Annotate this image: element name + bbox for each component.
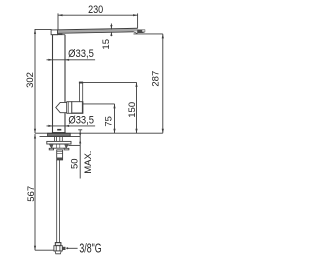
dim diam 33.5 lower line xyxy=(47,125,96,127)
dim diam 33.5 upper line xyxy=(47,59,96,61)
svg-text:Ø33,5: Ø33,5 xyxy=(68,48,94,60)
spout joint dark wedge xyxy=(58,33,63,35)
dim 50max top tick xyxy=(78,129,82,131)
base flange xyxy=(48,133,71,136)
cartridge bottom dark edge xyxy=(72,113,83,114)
pipe collar xyxy=(55,243,61,246)
body bottom dark edge xyxy=(52,132,66,133)
svg-text:150: 150 xyxy=(127,102,138,118)
302 bottom arrow xyxy=(34,129,36,134)
handle lever xyxy=(79,82,83,104)
handle lever top line xyxy=(83,81,137,83)
svg-text:302: 302 xyxy=(25,72,36,88)
svg-text:MAX.: MAX. xyxy=(83,151,94,174)
3/8 leader dot xyxy=(66,247,68,249)
dim 230 line xyxy=(58,14,138,16)
cartridge housing xyxy=(56,102,83,114)
dim 15 line xyxy=(110,24,112,37)
svg-text:287: 287 xyxy=(151,71,162,87)
dim 230 extension right xyxy=(137,13,139,28)
supply fitting xyxy=(57,150,63,160)
arrowheads xyxy=(34,14,164,250)
fitting dark band xyxy=(57,158,63,160)
cartridge body rect xyxy=(72,102,83,114)
230 right arrow xyxy=(133,14,138,16)
567 bottom arrow xyxy=(34,246,36,251)
nut hatch right xyxy=(64,144,68,148)
threaded shank xyxy=(55,137,63,142)
50max up arrow xyxy=(79,140,81,144)
50max down arrow xyxy=(79,133,81,137)
svg-text:75: 75 xyxy=(104,116,115,127)
main horizontal reference line (flange top) xyxy=(35,132,163,134)
cartridge collar xyxy=(67,102,72,114)
dim 230 extension left xyxy=(57,13,59,29)
287 top arrow xyxy=(162,34,164,39)
spout tip cap xyxy=(137,30,145,34)
svg-text:567: 567 xyxy=(26,186,37,202)
dim 567 line xyxy=(34,134,36,250)
elbow inner lines xyxy=(56,246,60,251)
svg-text:230: 230 xyxy=(88,4,103,16)
cartridge pentagon xyxy=(56,102,67,112)
spout bottom line xyxy=(57,32,133,34)
230 left arrow xyxy=(58,14,63,16)
body left line xyxy=(52,35,54,133)
fitting divider 2 xyxy=(57,152,63,154)
150 top arrow xyxy=(135,82,137,87)
diam upper left arrow xyxy=(48,59,52,61)
mounting nut xyxy=(49,144,68,148)
washer xyxy=(47,141,71,144)
leader 3/8G xyxy=(68,247,78,249)
body right line xyxy=(64,35,66,133)
567 top arrow xyxy=(34,134,36,139)
dim 302 corner/extension xyxy=(35,29,52,133)
75 bottom arrow xyxy=(113,129,115,134)
15 top arrow xyxy=(110,25,112,29)
spout gray band xyxy=(57,29,137,33)
dim 150 line xyxy=(136,82,138,133)
fitting divider xyxy=(57,151,63,153)
302 top arrow xyxy=(34,29,36,34)
dim 287 top extension xyxy=(134,33,163,35)
150 bottom arrow xyxy=(135,129,137,134)
body column xyxy=(53,35,66,133)
deck line xyxy=(40,135,81,137)
dim 50max line xyxy=(79,130,81,179)
75 top arrow xyxy=(113,104,115,109)
body top joint line xyxy=(53,34,66,36)
diam upper right arrow xyxy=(65,59,69,61)
15 bottom arrow xyxy=(110,32,112,36)
svg-text:50: 50 xyxy=(69,158,80,169)
lever left line xyxy=(78,83,80,104)
set screw mark xyxy=(57,129,61,131)
svg-text:15: 15 xyxy=(101,39,112,50)
diam lower right arrow xyxy=(65,125,69,127)
spout tip underside diagonal xyxy=(134,32,138,34)
cartridge right dark edge xyxy=(82,102,83,113)
dim 75 line xyxy=(114,104,116,133)
elbow foot xyxy=(55,251,61,254)
dim 50max lower extension xyxy=(68,144,80,146)
287 bottom arrow xyxy=(162,129,164,134)
cartridge collar inner line xyxy=(67,102,69,114)
nut inner lines xyxy=(57,144,60,148)
spout left block xyxy=(51,30,57,35)
dim 287 line xyxy=(162,34,164,133)
diam lower left arrow xyxy=(48,125,52,127)
washer row small blocks xyxy=(49,148,53,150)
elbow outlet xyxy=(62,247,65,250)
dim 567 bottom extension xyxy=(35,249,54,251)
svg-text:3/8"G: 3/8"G xyxy=(79,242,101,256)
elbow body xyxy=(54,246,62,251)
spout tip notch xyxy=(142,30,145,31)
dim 75 extension xyxy=(83,103,115,105)
lever cap xyxy=(79,82,83,84)
spout bar xyxy=(51,28,145,35)
spout top line xyxy=(57,28,137,30)
nut hatch left xyxy=(50,144,54,148)
svg-text:Ø33,5: Ø33,5 xyxy=(68,115,94,127)
supply pipe xyxy=(57,160,60,243)
lever right line xyxy=(82,83,84,104)
